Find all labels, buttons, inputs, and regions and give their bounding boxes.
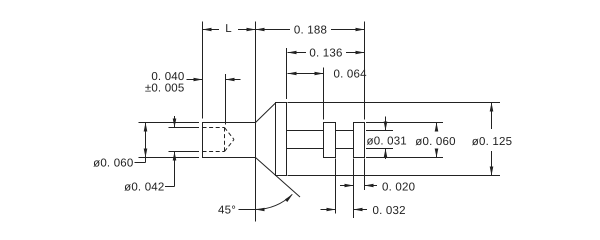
dim 0.020 left arrow: [340, 184, 354, 188]
dim 0.136 left segment with arrow: [288, 51, 307, 55]
dim 0.032 left arrow: [321, 208, 336, 212]
extension line collar dia top: [366, 122, 443, 124]
svg-text:ø0. 042: ø0. 042: [124, 182, 164, 194]
dim dia0.060 right bottom segment: [435, 149, 439, 158]
dim L left segment with arrow: [203, 28, 220, 32]
svg-text:L: L: [225, 23, 232, 35]
extension line hole dia top: [169, 127, 200, 129]
dim 0.040 right arrow: [226, 78, 241, 82]
extension line cone base with 45 ray: [255, 22, 257, 222]
extension line body left face: [202, 22, 204, 119]
shaft bottom line disc to collar1: [287, 148, 324, 150]
dim dia0.042 top arrow: [173, 116, 177, 128]
dim dia0.060 right top segment: [435, 123, 439, 132]
svg-text:0. 136: 0. 136: [309, 48, 342, 60]
dim dia0.042 leader: [165, 186, 175, 188]
hidden hole bottom line: [203, 151, 225, 153]
shaft bottom line between collars: [336, 148, 354, 150]
head cone upper slant: [256, 103, 276, 123]
dim 45deg label: [218, 205, 236, 217]
extension line head right face: [286, 48, 288, 99]
dim 0.040 label: [151, 71, 184, 83]
dim L right segment with arrow: [238, 28, 256, 32]
svg-text:ø0. 031: ø0. 031: [367, 136, 407, 148]
extension line collar F2 right above: [364, 22, 366, 120]
dim 0.032 label: [373, 205, 406, 217]
dim 0.040 tolerance label: [145, 83, 185, 95]
extension line body dia top: [139, 122, 200, 124]
svg-text:0. 040: 0. 040: [151, 71, 184, 83]
svg-text:45°: 45°: [218, 205, 236, 217]
extension line collar F2 right below: [364, 159, 366, 191]
head cone lower slant extended: [256, 158, 301, 198]
extension line hole depth: [225, 74, 227, 125]
dim 0.064 label: [334, 69, 368, 81]
head disc outline: [276, 103, 287, 176]
hidden hole top line: [203, 127, 225, 129]
extension line head dia bottom: [288, 175, 501, 177]
dim dia0.125 label: [472, 136, 512, 148]
extension line shaft dia top: [366, 130, 393, 132]
shaft top line between collars: [336, 130, 354, 132]
dim dia0.042 bottom arrow line: [173, 152, 177, 187]
shaft top line disc to collar1: [287, 130, 324, 132]
dim dia0.031 label: [367, 136, 407, 148]
extension line shaft dia bottom: [366, 148, 393, 150]
extension line body dia bottom: [139, 157, 200, 159]
dim 0.040 left arrow: [187, 78, 203, 82]
dim 0.064 line with arrows: [288, 72, 324, 76]
dim 0.020 label: [382, 182, 415, 194]
dim dia0.060 right label: [415, 136, 455, 148]
hidden hole end vertical: [224, 128, 226, 152]
dim dia0.125 top segment: [490, 103, 494, 130]
dim 0.188 label: [294, 25, 327, 37]
dim 45deg arc with arrows: [256, 194, 293, 211]
dim 0.020 right arrow: [365, 184, 378, 188]
dim dia0.060 left leader: [135, 162, 146, 164]
dim dia0.042 label: [124, 182, 164, 194]
dim dia0.125 bottom segment: [490, 151, 494, 176]
svg-text:ø0. 060: ø0. 060: [93, 158, 133, 170]
svg-text:ø0. 060: ø0. 060: [415, 136, 455, 148]
dim dia0.060 left label: [93, 158, 133, 170]
svg-text:±0. 005: ±0. 005: [145, 83, 185, 95]
extension line hole dia bottom: [169, 151, 200, 153]
dim 0.188 right segment with arrow: [331, 28, 365, 32]
collar F2 outline: [354, 123, 365, 158]
svg-text:0. 032: 0. 032: [373, 205, 406, 217]
dim 0.032 right arrow: [354, 208, 368, 212]
extension line collar F1 left above: [323, 68, 325, 120]
dim dia0.060 left dimension line: [144, 123, 148, 163]
dim dia0.031 bottom arrow: [384, 149, 388, 160]
collar F1 outline: [324, 123, 336, 158]
svg-text:0. 188: 0. 188: [294, 25, 327, 37]
extension line collar F2 left below: [353, 159, 355, 219]
extension line head dia top: [288, 102, 501, 104]
dim L label: [225, 23, 232, 35]
pin body cylinder outline: [203, 123, 256, 158]
hidden drill point upper: [225, 128, 235, 140]
svg-text:0. 020: 0. 020: [382, 182, 415, 194]
hidden drill point lower: [225, 140, 235, 152]
dim dia0.031 top arrow: [384, 117, 388, 131]
svg-text:ø0. 125: ø0. 125: [472, 136, 512, 148]
dim 0.136 label: [309, 48, 342, 60]
dim 0.188 left segment with arrow: [256, 28, 291, 32]
dim 45deg leader: [239, 209, 256, 211]
extension line collar dia bottom: [366, 157, 443, 159]
dim 0.136 right segment with arrow: [346, 51, 365, 55]
svg-text:0. 064: 0. 064: [334, 69, 368, 81]
extension line collar F1 right below: [335, 159, 337, 214]
